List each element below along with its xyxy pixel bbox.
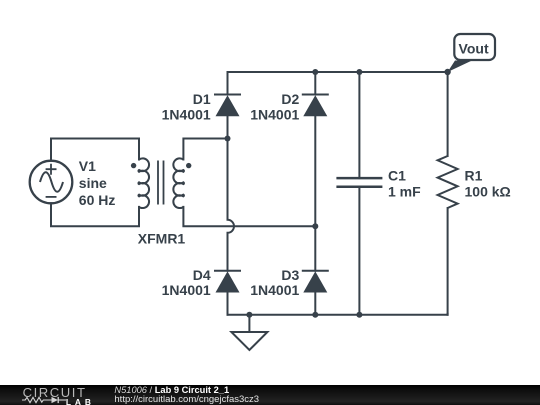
node dot secondary bottom junction: [312, 223, 318, 229]
wire secondary bottom to D3 branch: [183, 207, 315, 226]
node dot C1 bottom: [356, 312, 362, 318]
logo schematic glyph: [22, 396, 68, 404]
wire D3 top stub: [314, 226, 316, 270]
svg-text:1 mF: 1 mF: [388, 183, 421, 199]
label D2 1N4001: [250, 91, 299, 122]
wire R1 bottom stub: [447, 208, 449, 315]
wire D2 bottom to secondary junction: [314, 116, 316, 226]
label R1 100 kΩ: [465, 168, 511, 200]
label D1 1N4001: [162, 91, 211, 122]
node dot transformer top junction: [225, 136, 231, 142]
wire D3 bottom stub: [314, 292, 316, 314]
resistor R1: [438, 156, 458, 208]
node dot ground tap: [246, 312, 252, 318]
diode D3: [302, 271, 329, 293]
logo CIRCUIT word: [23, 385, 87, 400]
wire V1 top to primary: [51, 139, 139, 161]
diode D2: [302, 95, 329, 117]
wire D1-D4 branch with hop over secondary wire: [228, 139, 235, 271]
label D3 1N4001: [250, 267, 299, 298]
svg-text:1N4001: 1N4001: [250, 282, 299, 298]
phase dot secondary: [186, 163, 191, 168]
label C1 1 mF: [388, 168, 421, 200]
label D4 1N4001: [162, 267, 211, 298]
footer bar: [0, 385, 540, 405]
wire V1 bottom to primary: [51, 203, 139, 226]
node dot C1 top: [356, 69, 362, 75]
svg-text:D3: D3: [281, 267, 299, 283]
node Vout dot: [444, 69, 450, 75]
wire ground stub: [248, 315, 250, 332]
svg-text:C1: C1: [388, 168, 406, 184]
svg-text:1N4001: 1N4001: [162, 282, 211, 298]
voltage source V1: [30, 161, 73, 204]
label V1 sine 60 Hz: [79, 158, 116, 208]
svg-text:D2: D2: [281, 91, 299, 107]
transformer XFMR1: [138, 158, 184, 208]
svg-text:D4: D4: [193, 267, 211, 283]
wire C1 top stub: [358, 72, 360, 178]
wire C1 bottom stub: [358, 187, 360, 315]
svg-text:sine: sine: [79, 175, 107, 191]
wire D1 top stub: [227, 72, 229, 95]
core lines: [158, 161, 164, 205]
diode D1: [214, 95, 241, 117]
Vout flag box: [454, 34, 495, 60]
footer title line: [114, 385, 229, 395]
svg-text:Vout: Vout: [459, 41, 489, 57]
capacitor C1: [336, 178, 382, 187]
svg-text:V1: V1: [79, 158, 96, 174]
svg-text:60 Hz: 60 Hz: [79, 192, 116, 208]
phase dot primary: [131, 163, 136, 168]
wire bottom rail: [228, 314, 448, 315]
wire D2 top stub: [314, 72, 316, 95]
primary winding: [138, 158, 149, 208]
logo LAB word: [66, 397, 95, 405]
svg-text:100 kΩ: 100 kΩ: [465, 184, 511, 200]
svg-text:1N4001: 1N4001: [250, 106, 299, 122]
wire secondary top to D1 branch: [183, 139, 227, 160]
wire top rail: [228, 72, 448, 73]
diode D4: [214, 271, 241, 293]
svg-text:1N4001: 1N4001: [162, 106, 211, 122]
secondary winding: [173, 158, 184, 208]
svg-text:R1: R1: [465, 168, 483, 184]
svg-text:XFMR1: XFMR1: [138, 231, 186, 247]
node dot D2 top: [312, 69, 318, 75]
svg-text:D1: D1: [193, 91, 211, 107]
wire D4 bottom stub: [227, 292, 229, 314]
Vout flag pointer: [448, 61, 472, 73]
wire R1 top stub: [447, 72, 449, 156]
node dot D3 bottom: [312, 312, 318, 318]
wire D1 bottom to transformer junction: [227, 116, 229, 138]
footer url line: [114, 394, 259, 405]
ground: [231, 332, 267, 350]
